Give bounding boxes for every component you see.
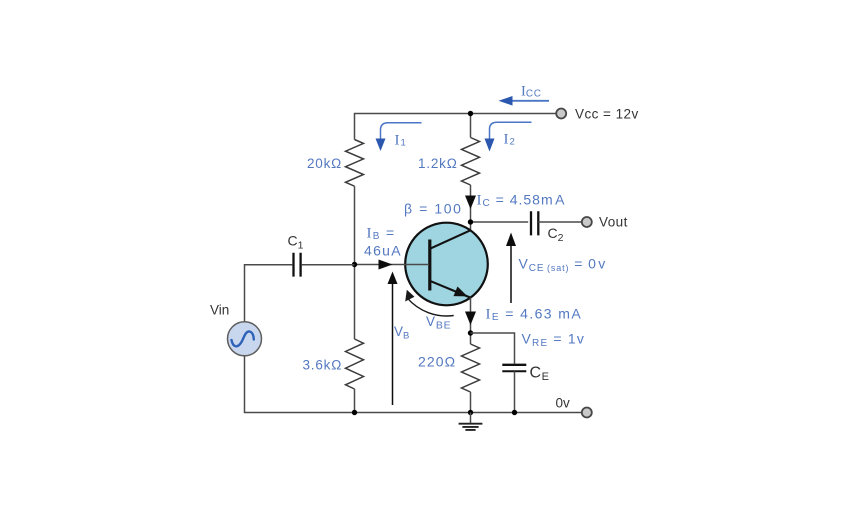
wire base — [355, 264, 430, 266]
resistor R1 20kΩ — [346, 140, 364, 187]
svg-text:VRE = 1v: VRE = 1v — [522, 331, 586, 350]
arrow IE current — [465, 312, 476, 326]
svg-text:46uA: 46uA — [364, 243, 402, 259]
junction dot bottom CE — [512, 410, 517, 415]
arrow VBE arc — [407, 298, 453, 316]
capacitor CE — [502, 364, 526, 366]
wire left branch lower lead — [354, 389, 356, 413]
arrow I2 bent — [490, 122, 532, 139]
arrow VCE measurement — [510, 244, 512, 303]
svg-text:0v: 0v — [556, 396, 571, 411]
junction dot bottom left — [352, 410, 357, 415]
junction dot base — [352, 262, 357, 267]
svg-text:IC = 4.58mA: IC = 4.58mA — [477, 192, 566, 210]
svg-text:20kΩ: 20kΩ — [307, 156, 342, 171]
source Vin sine — [232, 331, 254, 346]
capacitor C2 — [531, 211, 538, 235]
svg-text:IE = 4.63 mA: IE = 4.63 mA — [486, 306, 583, 324]
wire C1 to base node — [302, 264, 355, 266]
svg-text:Vin: Vin — [210, 303, 229, 318]
arrow IC current — [465, 196, 476, 210]
wire emitter resistor bottom — [470, 392, 472, 413]
capacitor C1 — [294, 253, 301, 277]
terminal Vout — [582, 217, 592, 227]
terminal 0v — [582, 408, 592, 418]
transistor Q1 body — [405, 223, 488, 306]
svg-text:1.2kΩ: 1.2kΩ — [418, 156, 458, 171]
svg-text:β = 100: β = 100 — [404, 201, 463, 217]
resistor R4 220Ω — [462, 344, 480, 392]
transistor Q1 emitter stroke — [430, 281, 471, 298]
arrow IB on base wire — [379, 260, 393, 270]
svg-text:220Ω: 220Ω — [418, 354, 456, 370]
resistor R3 1.2kΩ — [462, 138, 480, 186]
wire bottom rail — [245, 356, 582, 413]
wire right branch upper lead — [470, 114, 472, 138]
wire emitter vertical — [470, 298, 472, 344]
junction dot collector node — [468, 219, 473, 224]
transistor Q1 emitter arrow — [454, 287, 468, 297]
arrow I1 bent — [381, 123, 422, 140]
transistor Q1 collector stroke — [430, 230, 471, 249]
svg-text:Vout: Vout — [599, 215, 628, 230]
arrow ICC current — [512, 100, 549, 102]
junction dot emitter node — [468, 330, 473, 335]
svg-text:3.6kΩ: 3.6kΩ — [303, 358, 343, 373]
wire collector lead — [470, 185, 472, 230]
transistor Q1 base bar — [428, 240, 431, 291]
wire C2 to Vout — [538, 221, 582, 223]
wire left branch mid — [354, 186, 356, 339]
wire emitter to CE branch — [471, 333, 515, 364]
wire top rail — [355, 114, 557, 140]
svg-text:IB =: IB = — [367, 225, 396, 243]
resistor R2 3.6kΩ — [346, 339, 364, 389]
wire input top left — [245, 265, 293, 322]
junction dot bottom emitter — [468, 410, 473, 415]
svg-text:Vcc = 12v: Vcc = 12v — [575, 107, 639, 122]
arrow VB measurement — [392, 281, 394, 405]
wire CE bottom lead — [514, 371, 516, 412]
wire collector to C2 — [471, 221, 529, 223]
source Vin body — [228, 322, 262, 356]
junction dot top rail — [468, 111, 473, 116]
terminal Vcc — [556, 109, 566, 119]
ground — [470, 413, 472, 424]
